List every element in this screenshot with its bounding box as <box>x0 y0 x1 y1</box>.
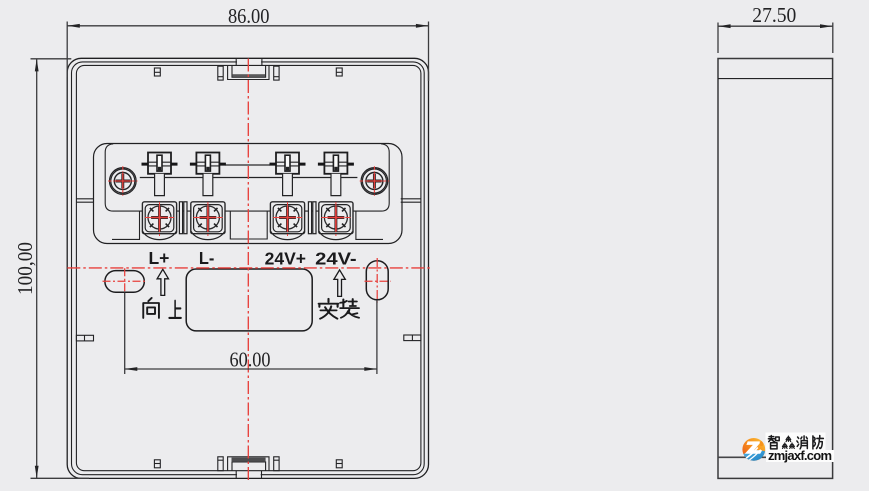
svg-text:100,00: 100,00 <box>13 242 37 295</box>
svg-text:60.00: 60.00 <box>230 348 271 372</box>
svg-text:86.00: 86.00 <box>228 4 270 28</box>
svg-text:24V-: 24V- <box>315 248 357 268</box>
svg-text:27.50: 27.50 <box>752 3 796 27</box>
svg-text:zmjaxf.com: zmjaxf.com <box>768 448 832 463</box>
svg-text:24V+: 24V+ <box>265 248 306 268</box>
svg-text:L+: L+ <box>148 248 169 268</box>
svg-text:L-: L- <box>199 248 215 268</box>
